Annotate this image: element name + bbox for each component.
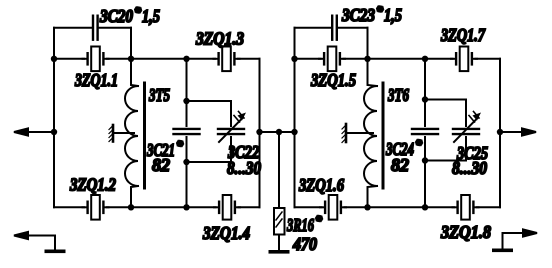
capacitor 3C20 (93, 16, 98, 40)
wire: bottom row, ZQ1.8 to right edge (477, 206, 500, 208)
wire: right trimmer loop top (425, 99, 466, 101)
junction: cap branch / bottom row (183, 204, 189, 210)
svg-text:*: * (176, 139, 184, 154)
trimmer arrow 3C25 (454, 118, 478, 143)
junction: cap branch / crystal row (183, 56, 189, 62)
crystal 3ZQ1.8 (453, 195, 479, 220)
wire: right section left bus (294, 28, 296, 208)
wire: crystal row, ZQ1.3 to right edge (238, 58, 260, 60)
wire: crystal row, bus to ZQ1.1 (54, 58, 84, 60)
wire: right top loop left segment (295, 27, 332, 29)
wire: crystal row, ZQ1.1 to ZQ1.3 (107, 58, 215, 60)
wire: crystal row, bus to ZQ1.5 (295, 58, 321, 60)
wire: right section right edge vertical (499, 59, 501, 208)
svg-text:*: * (134, 6, 142, 21)
capacitor 3C23 (332, 16, 337, 40)
wire: right trimmer lower vertical (465, 137, 467, 161)
junction: right coil / bottom row (364, 204, 370, 210)
junction: coil / bottom row (128, 204, 134, 210)
svg-text:3C23: 3C23 (341, 5, 375, 25)
wire: bottom row, ZQ1.2 to ZQ1.4 (107, 206, 216, 208)
wire: resistor lower lead (278, 235, 280, 251)
crystal 3ZQ1.3 (214, 47, 240, 72)
svg-text:1,5: 1,5 (384, 5, 402, 25)
resistor 3R16 (274, 208, 285, 235)
wire: left section right edge vertical (259, 59, 261, 208)
capacitor 3C24 (412, 129, 438, 134)
wire: right top loop right segment (338, 27, 368, 29)
capacitor 3C21 (174, 129, 200, 134)
svg-text:*: * (376, 5, 384, 20)
svg-text:470: 470 (292, 234, 317, 254)
ground stub bottom-right: arrow (523, 229, 537, 236)
crystal 3ZQ1.5 (319, 47, 345, 72)
ground bottom-left (45, 250, 66, 254)
right coil tap wire (347, 132, 373, 134)
trimmer arrow feathers (469, 112, 479, 123)
wire: trimmer loop bottom (187, 161, 232, 163)
wire: top loop left segment (to C20) (54, 27, 92, 29)
trimmer capacitor 3C25 (453, 129, 479, 134)
trimmer capacitor 3C22 (218, 129, 244, 134)
wire: resistor upper lead (278, 132, 280, 208)
wire: coil branch bottom vertical (131, 186, 138, 207)
ground below 3R16 (269, 250, 290, 254)
wire: output lead (500, 131, 526, 133)
crystal 3ZQ1.7 (451, 47, 477, 72)
wire: left vertical bus (53, 28, 55, 208)
crystal 3ZQ1.4 (214, 195, 240, 220)
ground stub bottom-right: wire (503, 233, 527, 249)
coil tap terminal bar (112, 125, 115, 142)
svg-text:3T6: 3T6 (387, 85, 409, 105)
ground stub bottom-left: wire (24, 236, 55, 250)
wire: coil branch top vertical (131, 59, 138, 86)
junction: node right cap branch bottom (422, 157, 428, 163)
svg-text:3ZQ1.6: 3ZQ1.6 (298, 175, 344, 195)
wire: trimmer lower vertical (230, 137, 232, 162)
wire: trimmer upper vertical (230, 101, 232, 126)
wire: right coil branch top vertical (368, 59, 378, 86)
wire: crystal row, ZQ1.7 to right edge (476, 58, 501, 60)
junction: resistor tap / mid row (276, 129, 282, 135)
wire: input lead (24, 131, 54, 133)
wire: right cap branch upper vertical (424, 59, 426, 126)
junction: right cap branch / crystal row (422, 56, 428, 62)
svg-text:3ZQ1.3: 3ZQ1.3 (195, 29, 244, 49)
svg-text:1,5: 1,5 (142, 6, 160, 26)
wire: top loop right vertical (130, 28, 132, 59)
junction: node cap branch top (183, 98, 189, 104)
wire: mid coupling row (260, 131, 295, 133)
wire: right top loop vertical (367, 28, 369, 59)
output arrow (522, 128, 536, 135)
wire: cap branch lower vertical (186, 137, 188, 207)
svg-text:82: 82 (152, 155, 170, 175)
wire: bottom row, ZQ1.6 to ZQ1.8 (345, 206, 455, 208)
junction: right top loop corner / crystal row (364, 56, 370, 62)
wire: bottom row, bus to ZQ1.2 (54, 206, 84, 208)
svg-text:3ZQ1.8: 3ZQ1.8 (440, 222, 491, 242)
inductor 3T5 winding (125, 86, 138, 186)
wire: right trimmer loop bottom (425, 160, 466, 162)
svg-text:3R16: 3R16 (286, 215, 314, 235)
right tap bar hatches (342, 126, 345, 143)
junction: left bus / crystal row (51, 56, 57, 62)
wire: trimmer loop top (187, 100, 232, 102)
svg-text:3C20: 3C20 (99, 6, 133, 26)
wire: right trimmer upper vertical (465, 100, 467, 127)
svg-text:*: * (415, 138, 423, 153)
junction: right bus / mid row (291, 129, 297, 135)
crystal 3ZQ1.1 (83, 47, 109, 72)
trimmer arrow feathers (234, 112, 244, 123)
junction: right bus / crystal row (291, 56, 297, 62)
wire: bottom row, ZQ1.4 to right edge (239, 206, 260, 208)
wire: right cap branch lower vertical (424, 137, 426, 207)
svg-text:3ZQ1.7: 3ZQ1.7 (440, 25, 486, 45)
coil tap wire (114, 132, 134, 134)
svg-text:3ZQ1.4: 3ZQ1.4 (202, 223, 250, 243)
wire: top loop right segment (C20 to corner) (99, 27, 132, 29)
right coil tap terminal bar (345, 124, 348, 142)
wire: right coil branch bottom vertical (368, 186, 378, 207)
junction: top loop corner / crystal row (128, 56, 134, 62)
junction: node right cap branch top (422, 96, 428, 102)
wire: bottom row, bus to ZQ1.6 (295, 206, 322, 208)
transformer core 3T6 (382, 83, 385, 188)
input arrow (14, 128, 28, 135)
trimmer arrow 3C22 (219, 118, 243, 143)
ground bottom-right (492, 249, 513, 253)
wire: cap branch upper vertical (186, 59, 188, 126)
svg-text:3T5: 3T5 (148, 85, 170, 105)
crystal 3ZQ1.6 (320, 195, 346, 220)
tap bar hatches (109, 127, 112, 142)
junction: output / right edge (497, 129, 503, 135)
junction: input / left bus (51, 129, 57, 135)
junction: right edge / mid row (256, 129, 262, 135)
wire: crystal row, ZQ1.5 to ZQ1.7 (344, 58, 453, 60)
inductor 3T6 winding (364, 86, 377, 186)
ground stub bottom-left: arrow (14, 232, 28, 239)
svg-text:3ZQ1.1: 3ZQ1.1 (74, 70, 118, 90)
svg-text:3ZQ1.5: 3ZQ1.5 (310, 70, 356, 90)
transformer core 3T5 (143, 83, 146, 188)
svg-text:*: * (315, 214, 323, 229)
svg-text:3ZQ1.2: 3ZQ1.2 (69, 175, 116, 195)
junction: right cap branch / bottom row (422, 204, 428, 210)
svg-text:8...30: 8...30 (227, 158, 261, 178)
svg-text:82: 82 (391, 155, 409, 175)
junction: node cap branch bottom (183, 159, 189, 165)
crystal 3ZQ1.2 (83, 195, 109, 220)
